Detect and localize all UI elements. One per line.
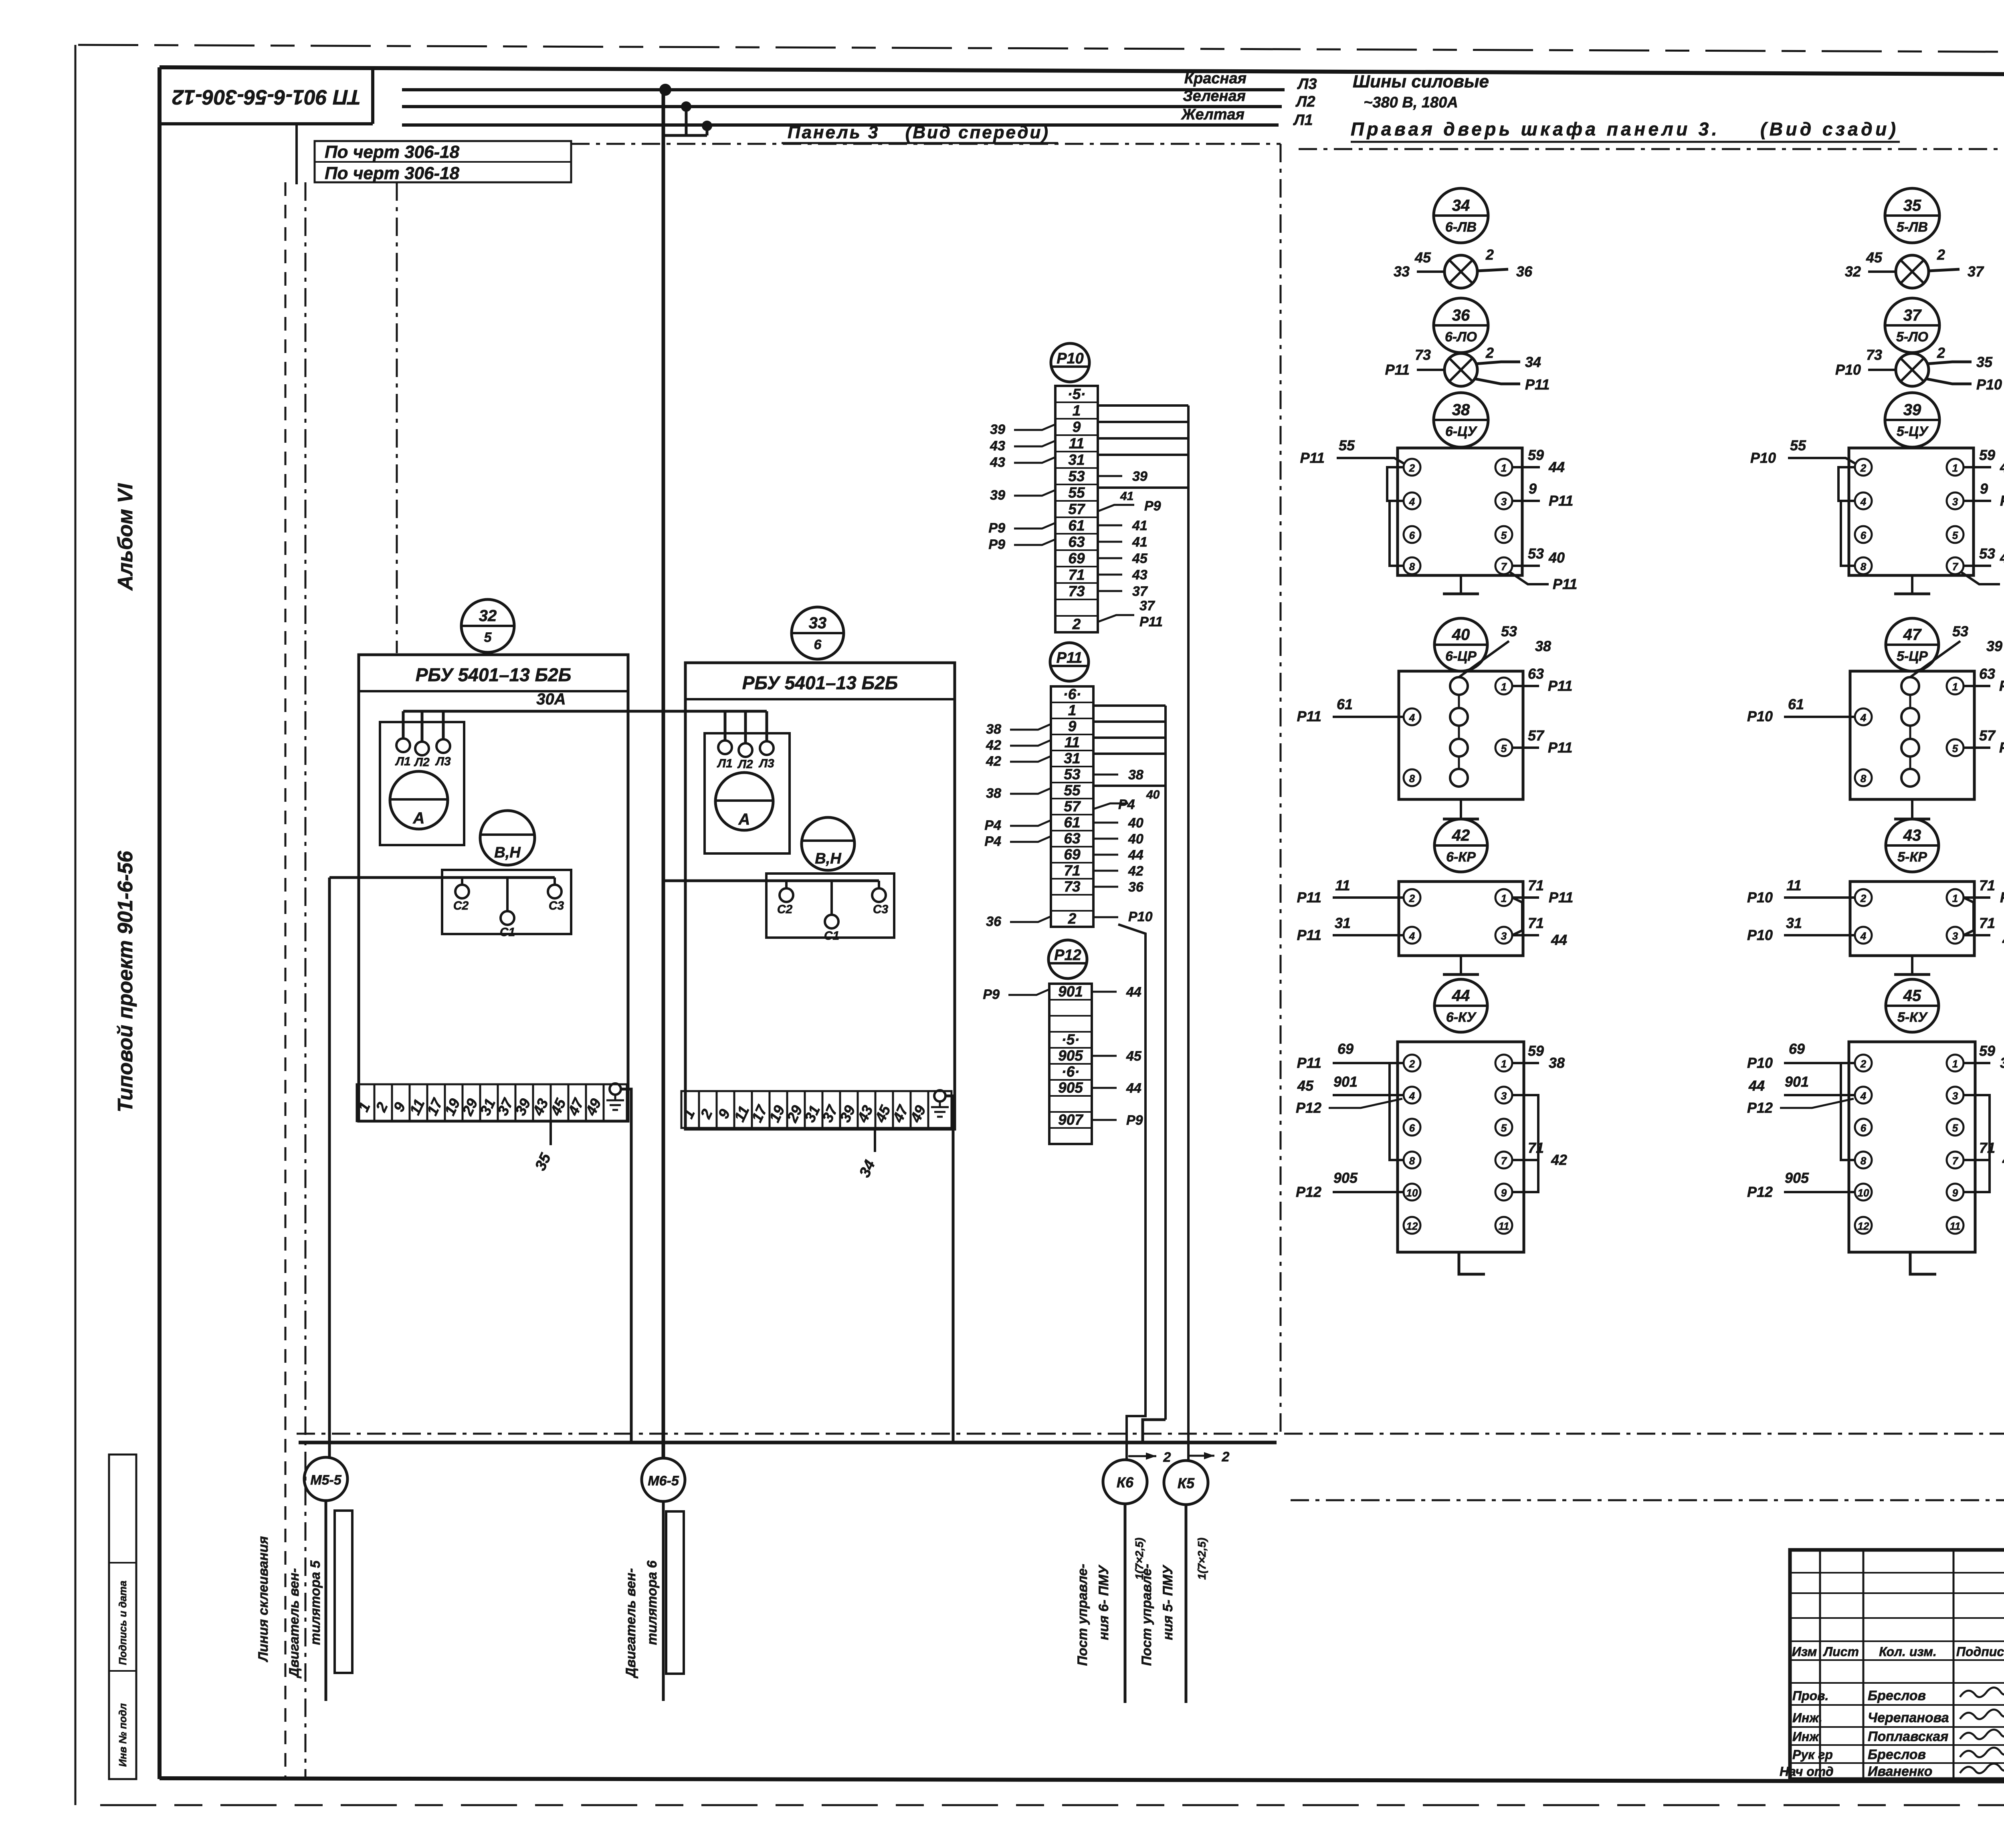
svg-text:·5·: ·5· [1067,386,1085,402]
svg-text:37: 37 [1968,263,1984,280]
box R-2 inner contact circles [1901,677,1919,787]
svg-text:Инж.: Инж. [1792,1711,1822,1725]
svg-text:6: 6 [1409,529,1415,541]
box L-3 terminals [1404,889,1512,944]
svg-text:31: 31 [1786,915,1802,931]
svg-text:43: 43 [990,455,1005,470]
svg-text:71: 71 [1068,567,1085,583]
svg-text:69: 69 [1064,846,1081,863]
relay unit box L-1 [1398,448,1522,575]
svg-text:1: 1 [1501,1058,1507,1070]
svg-text:4: 4 [1409,496,1415,508]
svg-text:Изм: Изм [1792,1644,1817,1659]
svg-text:·6·: ·6· [1061,1063,1079,1080]
svg-text:5-ЦР: 5-ЦР [1897,649,1928,664]
circle 39 [1885,393,1939,447]
motor feed wire from C-box to M5-5 [329,878,555,1457]
box L-1 right wires [1509,447,1577,592]
svg-text:~380 В, 180А: ~380 В, 180А [1364,94,1458,111]
svg-text:12: 12 [1858,1220,1869,1232]
box R-4 right jumper bracket 3-9 [1964,1095,1990,1192]
wire below M5-5 with cable tag [326,1501,352,1701]
box R-2 terminals [1855,678,1964,786]
svg-text:3: 3 [1952,1090,1958,1102]
relay unit box R-3 [1850,882,1974,956]
svg-text:44: 44 [1126,1081,1141,1096]
svg-text:6-ЦУ: 6-ЦУ [1445,424,1478,439]
svg-text:1: 1 [1501,462,1507,474]
terminal C2 [453,878,469,912]
terminal L1 [395,738,410,768]
svg-text:69: 69 [1068,550,1085,567]
P12 left side wire label [983,987,1049,1002]
lamp L1 wires and labels [1394,246,1533,280]
bus tap jogs [663,107,707,135]
svg-text:Черепанова: Черепанова [1868,1710,1949,1725]
ground symbol below box R-3 [1894,956,1930,974]
svg-text:11: 11 [1786,877,1801,894]
svg-text:1: 1 [1952,1058,1958,1070]
circle 47 [1886,618,1939,671]
svg-text:59: 59 [1528,1043,1544,1059]
svg-text:4: 4 [1860,930,1867,942]
svg-text:Р10: Р10 [1747,1055,1773,1071]
svg-text:43: 43 [1903,827,1921,844]
ammeter compartment box (left panel) [380,722,464,845]
svg-text:9: 9 [1501,1187,1507,1199]
box L-3 left wires [1297,877,1404,943]
svg-text:4: 4 [1860,1090,1867,1102]
terminal C2 (right) [777,881,793,916]
svg-text:8: 8 [1409,561,1415,573]
svg-text:4: 4 [1409,930,1415,942]
svg-text:3: 3 [1952,496,1958,508]
svg-text:А: А [738,811,750,828]
ground symbol below box R-1 [1894,575,1930,594]
lamp R1 wires and labels [1845,246,1984,280]
relay unit box L-3 [1399,882,1523,956]
svg-text:9: 9 [1068,718,1077,734]
bottom solid connection line [299,1441,1277,1445]
svg-text:44: 44 [1748,1077,1765,1094]
box R-1 input wire 55 [1750,437,1856,466]
svg-text:6: 6 [814,637,822,652]
svg-text:59: 59 [1979,447,1995,463]
svg-text:5: 5 [484,630,492,645]
svg-text:М5-5: М5-5 [310,1473,342,1488]
svg-text:Пров.: Пров. [1792,1689,1828,1703]
arrow 2 at K5 [1190,1449,1230,1465]
svg-text:Бреслов: Бреслов [1868,1688,1926,1703]
svg-text:34: 34 [1525,354,1541,370]
svg-text:Р11: Р11 [1553,576,1577,592]
svg-text:7: 7 [1952,561,1959,573]
svg-text:1: 1 [1501,681,1507,693]
relay terminal block label P12 [1048,940,1087,978]
svg-text:Р12: Р12 [1054,947,1081,964]
drops to L1 L2 L3 terminals (left panel) [403,711,443,742]
svg-text:Р4: Р4 [984,834,1001,849]
svg-text:Р10: Р10 [1747,889,1773,906]
svg-text:Рук гр: Рук гр [1792,1747,1833,1762]
svg-text:Иваненко: Иваненко [1868,1764,1932,1779]
svg-text:Р11: Р11 [1139,614,1163,629]
svg-text:РБУ 5401–13 Б2Б: РБУ 5401–13 Б2Б [416,664,572,685]
signal lamp R2 [1896,353,1929,386]
box L-1 left jumper brackets [1387,467,1404,566]
svg-text:35: 35 [1903,197,1921,214]
30A feeder wire across panels [403,690,767,711]
svg-text:905: 905 [1058,1047,1083,1064]
RBU 5401-13B2B panel unit No.6 [685,663,955,1129]
svg-text:36: 36 [1452,307,1470,324]
circle 36 [1434,298,1488,353]
svg-text:45: 45 [1903,987,1921,1005]
circle 40 [1434,618,1487,671]
svg-text:59: 59 [1979,1043,1995,1059]
svg-text:5-ЦУ: 5-ЦУ [1897,424,1929,439]
P12 right side labels [1092,985,1143,1128]
ground symbol below box L-2 [1443,799,1479,819]
control post circle K5 [1164,1461,1208,1505]
terminal C3 (right) [872,881,888,916]
svg-text:Двигатель вен-: Двигатель вен- [287,1568,302,1679]
terminal L3 (right) [758,741,774,770]
svg-text:38: 38 [986,722,1001,737]
box L-2 inner contact circles [1450,677,1468,787]
svg-text:42: 42 [986,754,1001,769]
svg-text:57: 57 [1979,727,1996,744]
box L-3 right wires and jumper [1512,877,1573,948]
svg-text:Л2: Л2 [737,758,753,771]
svg-text:901: 901 [1058,983,1083,1000]
svg-text:5: 5 [1501,742,1507,755]
terminal L1 (right) [717,740,732,770]
svg-text:Л1: Л1 [1293,112,1313,129]
svg-text:3: 3 [1952,930,1958,942]
svg-text:3: 3 [1501,1090,1507,1102]
svg-text:Р9: Р9 [988,537,1005,552]
svg-text:6-ЛВ: 6-ЛВ [1445,220,1477,235]
svg-text:37: 37 [1139,598,1156,613]
svg-text:61: 61 [1337,696,1353,712]
P10 left side wire labels [988,422,1055,552]
rotated label: fan motor 6 [623,1560,660,1679]
svg-text:41: 41 [1132,518,1147,533]
svg-text:9: 9 [1529,480,1537,497]
svg-text:Желтая: Желтая [1181,106,1244,123]
svg-text:73: 73 [1415,347,1431,363]
svg-text:32: 32 [479,607,497,625]
svg-text:С2: С2 [453,899,469,912]
box L-4 terminals right [1495,1055,1512,1234]
svg-text:Р11: Р11 [1549,889,1573,906]
svg-text:8: 8 [1861,773,1867,785]
P11 bundle end jog at bottom [1143,1420,1166,1443]
svg-text:55: 55 [1339,437,1355,454]
designator circle 33/6 [792,607,844,659]
svg-text:Подпись: Подпись [1956,1644,2004,1659]
reference box "По черт 306-18" [315,141,571,183]
svg-text:31: 31 [1068,452,1085,468]
V,N instrument circle (left panel) [480,811,535,865]
svg-text:С2: С2 [777,903,793,916]
bus labels [1181,70,1317,129]
terminal strip of RBU panel No.6 [680,1091,929,1128]
svg-text:40: 40 [1452,626,1470,644]
box R-2 slant wire to 53 [1910,623,2002,677]
motor circle M6-5 [642,1458,685,1501]
svg-text:Л2: Л2 [414,756,430,769]
svg-text:Р9: Р9 [1126,1113,1143,1128]
main vertical feeder wire to M6-5 [662,90,665,1459]
svg-text:40: 40 [1128,831,1143,847]
svg-text:41: 41 [1120,490,1133,503]
svg-text:Р10: Р10 [1999,739,2004,756]
svg-text:Р11: Р11 [1525,376,1549,393]
svg-text:41: 41 [1132,535,1147,550]
P10 right side long wires to bundle [1098,406,1188,1461]
ground symbol below box R-4 [1910,1252,1936,1274]
svg-text:63: 63 [1528,666,1544,682]
svg-text:Р10: Р10 [1750,450,1776,466]
svg-text:10: 10 [1406,1187,1418,1199]
svg-text:К5: К5 [1178,1475,1195,1491]
svg-text:Р10: Р10 [1128,909,1153,924]
ground symbol below box R-2 [1894,799,1930,819]
svg-text:С1: С1 [824,929,839,942]
svg-text:5-КУ: 5-КУ [1897,1010,1928,1025]
svg-text:44: 44 [2000,549,2004,566]
svg-text:Поплавская: Поплавская [1868,1729,1948,1744]
svg-text:РБУ 5401–13 Б2Б: РБУ 5401–13 Б2Б [742,672,898,693]
margin table (signature strip) [109,1455,136,1779]
svg-text:тилятора 5: тилятора 5 [308,1560,323,1645]
svg-text:71: 71 [1528,877,1544,894]
circle 42 [1434,819,1487,872]
svg-text:3: 3 [1501,930,1507,942]
svg-text:2: 2 [1068,910,1077,927]
svg-text:5: 5 [1501,1122,1507,1134]
terminal strip of RBU panel No.5 [355,1084,604,1121]
circle 34 [1434,188,1488,243]
svg-text:38: 38 [1535,638,1551,654]
svg-text:43: 43 [990,438,1005,454]
panel 3 dash-dot boundary (front view) [397,144,1281,1436]
box R-1 terminals left [1855,459,1872,574]
svg-text:73: 73 [1064,878,1081,895]
svg-text:Р12: Р12 [1296,1100,1321,1116]
svg-text:69: 69 [1337,1041,1354,1057]
svg-text:53: 53 [1501,623,1517,640]
svg-text:33: 33 [1394,263,1410,280]
circle 37 [1885,298,1939,353]
svg-text:7: 7 [1952,1155,1959,1167]
svg-text:4: 4 [1409,712,1415,724]
svg-text:6: 6 [1861,1122,1867,1134]
svg-text:5: 5 [1952,742,1958,755]
P10 right side labels [1098,469,1163,629]
svg-text:·5·: ·5· [1061,1031,1079,1048]
svg-text:Типовой проект 901-6-56: Типовой проект 901-6-56 [114,851,137,1113]
svg-text:ния 5- ПМУ: ния 5- ПМУ [1160,1564,1176,1640]
svg-text:31: 31 [1335,915,1351,931]
svg-text:45: 45 [1297,1077,1314,1094]
svg-text:5: 5 [1952,1122,1958,1134]
svg-text:2: 2 [1485,246,1494,263]
svg-text:Р9: Р9 [1144,498,1161,514]
svg-text:57: 57 [1068,501,1086,517]
svg-text:С1: С1 [500,926,515,939]
svg-text:39: 39 [1132,469,1147,484]
signal lamp R1 [1896,255,1929,288]
svg-text:40: 40 [1128,815,1143,831]
svg-text:39: 39 [2000,1055,2004,1071]
relay unit box L-2 [1399,671,1523,799]
rotated label: control post 5-PMU [1139,1537,1208,1666]
svg-text:Двигатель вен-: Двигатель вен- [623,1568,638,1679]
svg-text:71: 71 [1528,1140,1544,1156]
svg-text:8: 8 [1409,773,1415,785]
revision table [1780,1550,2004,1779]
svg-text:12: 12 [1406,1220,1418,1232]
ground wire of right RBU panel going down [945,1096,953,1443]
svg-text:11: 11 [1065,734,1080,750]
svg-text:6-ЦР: 6-ЦР [1445,649,1477,664]
signal lamp L2 [1444,353,1477,386]
svg-text:Нач отд: Нач отд [1780,1764,1834,1779]
svg-text:·6·: ·6· [1063,686,1081,702]
box R-3 left wires [1747,877,1855,943]
svg-text:7: 7 [1501,561,1507,573]
svg-text:905: 905 [1058,1079,1083,1096]
circle 35 [1885,188,1939,243]
svg-text:Панель 3 (Вид спереди): Панель 3 (Вид спереди) [788,123,1048,142]
rotated label: control post 6-PMU [1075,1537,1145,1666]
svg-text:8: 8 [1861,1155,1867,1167]
svg-text:Линия склеивания: Линия склеивания [256,1536,271,1663]
svg-text:44: 44 [1551,932,1567,948]
svg-text:1: 1 [1952,892,1958,904]
svg-text:Р11: Р11 [1385,361,1410,378]
terminal C1 (right) [824,881,839,942]
svg-text:В,Н: В,Н [815,850,842,867]
circle 38 [1434,393,1488,447]
junction dot L1 [702,121,712,131]
box L-4 right jumper bracket 3-9 [1512,1095,1538,1192]
box R-2 left wire 61 [1747,696,1855,724]
terminal L3 [435,739,451,768]
control post circle K6 [1103,1460,1147,1504]
svg-text:С3: С3 [549,899,564,912]
svg-text:45: 45 [2002,932,2004,948]
svg-text:44: 44 [1126,985,1141,1000]
svg-text:40: 40 [1548,549,1565,566]
svg-text:Р11: Р11 [1297,708,1321,724]
box R-1 right wires [1961,447,2004,592]
svg-text:По черт 306-18: По черт 306-18 [325,142,460,162]
svg-text:39: 39 [1986,638,2002,654]
box R-2 right wires [1964,666,2004,756]
stamp box TP 901-6-56-306-12 (upside down) [160,67,373,124]
box L-4 left jumper bracket 2-8 [1390,1063,1404,1160]
svg-text:55: 55 [1068,484,1085,501]
svg-text:В,Н: В,Н [494,844,521,861]
fold line (dash-dot vertical) [295,124,298,184]
relay terminal block label P10 [1051,343,1089,382]
P11 left side wire labels [984,722,1051,929]
svg-text:5-ЛО: 5-ЛО [1896,329,1928,345]
svg-text:5: 5 [1501,529,1507,541]
box L-2 terminals [1404,678,1512,786]
svg-text:1: 1 [1952,681,1958,693]
svg-text:Инв № подл: Инв № подл [117,1703,129,1767]
svg-text:1: 1 [1501,892,1507,904]
svg-text:11: 11 [1499,1220,1509,1232]
svg-text:37: 37 [1132,584,1148,599]
box R-4 terminals left [1855,1055,1872,1234]
svg-text:63: 63 [1068,534,1085,550]
svg-text:Подпись и дата: Подпись и дата [117,1581,129,1665]
svg-text:Кол. изм.: Кол. изм. [1879,1644,1937,1659]
svg-text:6-КУ: 6-КУ [1446,1010,1477,1025]
relay unit box R-2 [1850,671,1974,799]
svg-text:905: 905 [1333,1170,1358,1186]
ground terminal of RBU panel No.6 [928,1090,951,1128]
power bus L1 (yellow) [402,123,1279,127]
box R-1 left jumper brackets [1838,467,1855,566]
svg-text:М6-5: М6-5 [648,1473,679,1489]
cable leader and label 35 [532,1121,554,1173]
power bus L3 (red) [402,88,1285,91]
svg-text:С3: С3 [873,903,889,916]
svg-text:Инж: Инж [1792,1729,1819,1744]
svg-text:Л1: Л1 [395,755,410,768]
svg-text:Р12: Р12 [1747,1100,1773,1116]
svg-text:905: 905 [1785,1170,1809,1186]
svg-text:2: 2 [1409,462,1415,474]
P11 row2 wire going down to K6 [1118,924,1145,1460]
box L-4 right wires [1512,1043,1567,1168]
wire below M6-5 with cable tag [663,1501,684,1701]
fold line (dash-dot horizontal) [297,1433,2004,1435]
P11 right side labels [1093,767,1160,924]
svg-text:47: 47 [1903,626,1922,644]
svg-text:Р11: Р11 [1297,889,1321,906]
svg-text:Р11: Р11 [1549,492,1573,509]
svg-text:Л3: Л3 [1297,76,1317,93]
svg-text:Шины силовые: Шины силовые [1353,72,1489,91]
svg-text:Р10: Р10 [1976,376,2002,393]
svg-text:Р11: Р11 [1297,927,1321,943]
svg-text:7: 7 [1501,1155,1507,1167]
svg-text:53: 53 [1952,623,1968,640]
svg-text:38: 38 [1128,767,1143,783]
svg-text:37: 37 [1903,307,1922,324]
svg-text:Р11: Р11 [1057,650,1083,666]
box R-3 terminals [1855,889,1964,944]
box R-3 right wires and jumper [1964,877,2004,948]
svg-text:61: 61 [1068,517,1085,534]
svg-text:57: 57 [1528,727,1545,744]
terminal C3 [548,878,564,912]
terminal strip P10 [1055,386,1098,632]
svg-text:1: 1 [1073,402,1081,419]
svg-text:Л1: Л1 [717,757,732,770]
circle 43 [1886,819,1939,872]
svg-text:38: 38 [986,786,1001,801]
svg-text:71: 71 [1064,862,1080,879]
